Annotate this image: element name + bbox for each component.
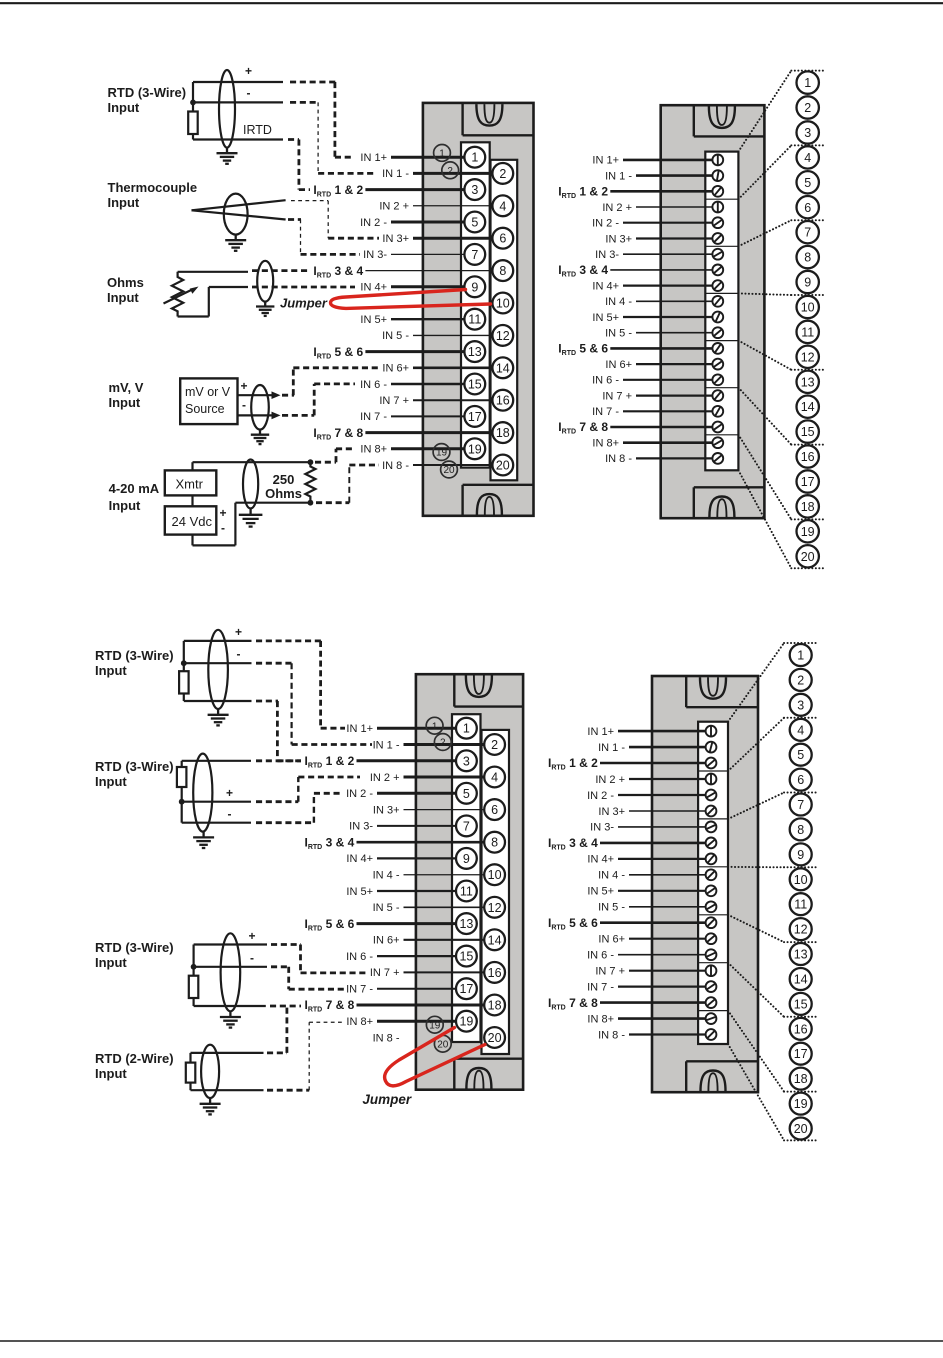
svg-text:IN 8 -: IN 8 - — [598, 1029, 625, 1041]
svg-text:Input: Input — [107, 290, 139, 305]
wire 24 Vdc - return (top diagram) — [193, 503, 311, 546]
wire TC - to IN 3- (dashed) — [288, 220, 360, 255]
dotted leader 4 (bottom diagram) — [728, 866, 784, 868]
pin number 20 (bottom diagram) — [790, 1118, 812, 1140]
cable clamp top (bottom diagram, terminal view) — [700, 677, 726, 699]
svg-text:9: 9 — [804, 276, 811, 290]
screw 9 (bottom diagram, terminal view) — [706, 854, 717, 865]
screw 15 (top diagram, terminal view) — [712, 374, 723, 385]
terminal 8 (top diagram) — [492, 260, 513, 281]
svg-text:-: - — [237, 647, 241, 661]
terminal block body (bottom diagram, wiring view) — [416, 674, 523, 1089]
dotted leader 7 (bottom diagram) — [728, 1011, 784, 1092]
svg-text:2: 2 — [440, 738, 446, 749]
svg-text:IN 3+: IN 3+ — [598, 806, 625, 818]
svg-text:16: 16 — [496, 394, 510, 408]
group separator dotted line 4 (top diagram) — [791, 294, 826, 296]
dotted leader 5 (top diagram) — [738, 341, 791, 370]
wire/label IN 5 - (bottom diagram mid block) — [373, 902, 485, 914]
screw 6 (top diagram, terminal view) — [712, 233, 723, 244]
svg-text:RTD (3-Wire): RTD (3-Wire) — [95, 648, 174, 663]
wire/label IN 8 - (bottom diagram screw block) — [598, 1029, 706, 1041]
pin number 6 (top diagram) — [797, 196, 819, 218]
svg-text:13: 13 — [794, 948, 808, 962]
screw 5 (bottom diagram, terminal view) — [706, 790, 717, 801]
terminal 7 (top diagram) — [464, 244, 485, 265]
junction node 250 Ohms bottom (top diagram) — [308, 500, 314, 506]
terminal 16 (bottom diagram) — [484, 962, 505, 983]
cable clamp bottom (bottom diagram, wiring view) — [466, 1068, 491, 1089]
svg-text:+: + — [220, 506, 227, 520]
callout circled 2 (top diagram) — [442, 162, 459, 179]
RTD element resistor #2 (bottom diagram) — [177, 767, 187, 787]
svg-text:5: 5 — [797, 748, 804, 762]
wire Xmtr to 24 Vdc (top diagram) — [191, 495, 193, 506]
svg-text:13: 13 — [801, 375, 815, 389]
wire RTD 2-wire bottom to IN 8+ (dashed) — [267, 1022, 345, 1090]
Xmtr box (top diagram) — [165, 470, 217, 495]
svg-text:Input: Input — [95, 663, 127, 678]
jumper wire terminals 19-20 (bottom diagram) — [385, 1028, 485, 1086]
svg-text:2: 2 — [499, 167, 506, 181]
svg-text:19: 19 — [801, 525, 815, 539]
svg-text:18: 18 — [801, 500, 815, 514]
label RTD (3-Wire) Input (top diagram) — [108, 85, 187, 115]
svg-text:IN 2 -: IN 2 - — [360, 217, 387, 229]
svg-text:13: 13 — [468, 345, 482, 359]
terminal 2 (top diagram) — [492, 163, 513, 184]
pin number 12 (top diagram) — [797, 346, 819, 368]
svg-text:IN 4 -: IN 4 - — [373, 870, 400, 882]
wire/label 1 &amp; 2 (bottom diagram screw block) — [548, 756, 706, 772]
svg-text:IN 5 -: IN 5 - — [605, 328, 632, 340]
svg-text:20: 20 — [488, 1031, 502, 1045]
pin number 18 (bottom diagram) — [790, 1068, 812, 1090]
callout circled 2 (bottom diagram) — [434, 734, 451, 751]
svg-text:Source: Source — [185, 402, 225, 416]
svg-text:IN 4+: IN 4+ — [360, 282, 387, 294]
svg-text:IN 1+: IN 1+ — [592, 155, 619, 167]
wire/label IN 5+ (bottom diagram screw block) — [587, 886, 705, 898]
wire/label 5 &amp; 6 (top diagram mid block) — [313, 345, 464, 361]
svg-text:IN 8+: IN 8+ — [587, 1013, 614, 1025]
wire 4-20 mA + to IN 8+ (dashed) — [315, 449, 354, 462]
wire/label IN 5+ (top diagram screw block) — [592, 312, 712, 324]
svg-text:Jumper: Jumper — [280, 296, 328, 311]
terminal 10 (bottom diagram) — [484, 864, 505, 885]
svg-text:IN 5 -: IN 5 - — [373, 902, 400, 914]
group separator dotted line 7 (top diagram) — [791, 518, 826, 520]
svg-text:17: 17 — [794, 1047, 808, 1061]
wire/label IN 4+ (bottom diagram mid block) — [346, 853, 456, 865]
group separator dotted line 2 (top diagram) — [791, 144, 826, 146]
svg-text:10: 10 — [801, 301, 815, 315]
svg-text:20: 20 — [496, 459, 510, 473]
label 4-20 mA Input (top diagram) — [109, 481, 160, 513]
svg-text:-: - — [221, 521, 225, 535]
pin number 18 (top diagram) — [797, 495, 819, 517]
wire/label IN 8 - (top diagram mid block) — [382, 460, 492, 472]
wire/label 3 &amp; 4 (bottom diagram mid block) — [305, 835, 485, 851]
svg-text:IN 3+: IN 3+ — [382, 233, 409, 245]
svg-text:15: 15 — [794, 997, 808, 1011]
group separator dotted line 4 (bottom diagram) — [784, 866, 819, 868]
wire/label IN 4+ (top diagram mid block) — [360, 282, 464, 294]
junction node 250 Ohms top (top diagram) — [308, 459, 314, 465]
svg-text:5: 5 — [463, 787, 470, 801]
svg-text:IN 2 +: IN 2 + — [379, 201, 409, 213]
svg-text:17: 17 — [801, 475, 815, 489]
svg-text:Input: Input — [95, 955, 127, 970]
callout circled 20 (top diagram) — [441, 461, 458, 478]
group separator dotted line 3 (top diagram) — [791, 219, 826, 221]
callout circled 19 (top diagram) — [433, 444, 450, 461]
polarity labels RTD#2 (bottom diagram) — [226, 786, 233, 821]
wire/label IN 6 - (top diagram screw block) — [592, 375, 712, 387]
svg-text:IN 2 +: IN 2 + — [602, 202, 632, 214]
svg-text:IN 8 -: IN 8 - — [373, 1032, 400, 1044]
svg-text:18: 18 — [794, 1072, 808, 1086]
pin number 16 (bottom diagram) — [790, 1018, 812, 1040]
terminal block body (top diagram, wiring view) — [423, 103, 534, 516]
wire mV - to IN 6 - (dashed) — [282, 384, 355, 416]
svg-text:6: 6 — [797, 773, 804, 787]
wire/label IN 5 - (bottom diagram screw block) — [598, 902, 706, 914]
svg-text:IN 7 +: IN 7 + — [602, 390, 632, 402]
svg-text:12: 12 — [794, 923, 808, 937]
wire Xmtr top loop (top diagram) — [193, 462, 311, 470]
callout circled 19 (bottom diagram) — [426, 1016, 443, 1033]
terminal 12 (bottom diagram) — [484, 897, 505, 918]
svg-text:IN 5+: IN 5+ — [346, 886, 373, 898]
svg-text:Xmtr: Xmtr — [176, 477, 204, 492]
screw 1 (bottom diagram, terminal view) — [706, 725, 717, 737]
svg-text:1: 1 — [463, 722, 470, 736]
polarity labels 24 Vdc (top diagram) — [220, 506, 227, 535]
terminal 12 (top diagram) — [492, 325, 513, 346]
svg-text:IN 6 -: IN 6 - — [587, 950, 614, 962]
pin number 3 (bottom diagram) — [790, 694, 812, 716]
wire/label 5 &amp; 6 (top diagram screw block) — [558, 342, 712, 358]
svg-text:Ohms: Ohms — [107, 275, 144, 290]
RTD element resistor (top diagram) — [188, 112, 198, 135]
pin number 17 (top diagram) — [797, 470, 819, 492]
terminal 5 (top diagram) — [464, 212, 485, 233]
terminal 15 (top diagram) — [464, 374, 485, 395]
wire RTD1 IRTD to IRTD 1 & 2 (dashed) — [288, 140, 310, 190]
cable shield mV (top diagram) — [251, 385, 269, 430]
wire RTD#2 current lead to IRTD 1 & 2 (dashed) — [256, 759, 301, 762]
svg-text:mV or V: mV or V — [185, 385, 231, 399]
screw 17 (top diagram, terminal view) — [712, 406, 723, 417]
screw 8 (bottom diagram, terminal view) — [706, 838, 717, 849]
pin number 16 (top diagram) — [797, 445, 819, 467]
svg-text:IN 4+: IN 4+ — [346, 853, 373, 865]
screw 5 (top diagram, terminal view) — [712, 217, 723, 228]
dotted leader 5 (bottom diagram) — [728, 915, 784, 942]
svg-text:IN 3-: IN 3- — [595, 249, 619, 261]
cable shield RTD#3 (bottom diagram) — [221, 933, 241, 1011]
ground mV shield (top diagram) — [251, 430, 269, 444]
wire/label IN 2 - (top diagram screw block) — [592, 218, 712, 230]
RTD element resistor 2-wire (bottom diagram) — [186, 1063, 196, 1083]
screw 3 (top diagram, terminal view) — [712, 186, 723, 197]
wire/label IN 1+ (bottom diagram screw block) — [587, 726, 705, 738]
pin number 4 (bottom diagram) — [790, 719, 812, 741]
svg-text:IN 7 +: IN 7 + — [595, 966, 625, 978]
label RTD (3-Wire) Input #3 (bottom diagram) — [95, 940, 174, 970]
svg-text:20: 20 — [443, 465, 455, 476]
screw 2 (top diagram, terminal view) — [712, 170, 723, 181]
svg-text:-: - — [250, 951, 254, 965]
label RTD (3-Wire) Input #1 (bottom diagram) — [95, 648, 174, 678]
screw terminal block body (top diagram, terminal view) — [661, 105, 765, 518]
RTD element resistor #1 (bottom diagram) — [179, 671, 189, 693]
svg-text:14: 14 — [801, 400, 815, 414]
callout circled 20 (bottom diagram) — [434, 1035, 451, 1052]
svg-text:mV, V: mV, V — [109, 380, 144, 395]
svg-text:12: 12 — [488, 901, 502, 915]
wire/label IN 8+ (bottom diagram mid block) — [346, 1016, 456, 1028]
terminal 6 (top diagram) — [492, 228, 513, 249]
screw 13 (top diagram, terminal view) — [712, 343, 723, 354]
svg-text:8: 8 — [797, 823, 804, 837]
wire/label IN 6+ (bottom diagram mid block) — [373, 935, 484, 947]
wire/label IN 4 - (bottom diagram screw block) — [598, 870, 706, 882]
pin number 3 (top diagram) — [797, 121, 819, 143]
wire RTD1 + to IN 1+ (dashed) — [290, 82, 353, 157]
dotted leader 1 (top diagram) — [738, 71, 791, 152]
terminal 4 (top diagram) — [492, 195, 513, 216]
label RTD (2-Wire) Input (bottom diagram) — [95, 1051, 174, 1081]
screw 3 (bottom diagram, terminal view) — [706, 758, 717, 769]
wire/label IN 7 + (top diagram screw block) — [602, 390, 712, 402]
screw 18 (top diagram, terminal view) — [712, 422, 723, 433]
svg-text:IN 6+: IN 6+ — [373, 935, 400, 947]
svg-text:IN 2 -: IN 2 - — [592, 218, 619, 230]
group separator dotted line 2 (bottom diagram) — [784, 717, 819, 719]
screw 13 (bottom diagram, terminal view) — [706, 917, 717, 928]
wire ohms bottom (top diagram) — [178, 287, 248, 317]
svg-text:IN 5 -: IN 5 - — [382, 330, 409, 342]
ground RTD1 shield (top diagram) — [217, 148, 238, 164]
pin number 1 (top diagram) — [797, 71, 819, 93]
wire/label 1 &amp; 2 (bottom diagram mid block) — [305, 754, 457, 770]
screw 11 (top diagram, terminal view) — [712, 312, 723, 323]
svg-text:4-20 mA: 4-20 mA — [109, 481, 160, 496]
terminal 20 (bottom diagram) — [484, 1027, 505, 1048]
wire/label IN 4 - (bottom diagram mid block) — [373, 870, 485, 882]
RTD 3-wire sensor circuit #1 (bottom diagram) — [184, 641, 252, 701]
callout circled 1 (bottom diagram) — [426, 717, 443, 734]
terminal 3 (top diagram) — [464, 179, 485, 200]
svg-text:1: 1 — [439, 149, 445, 160]
svg-text:7: 7 — [797, 798, 804, 812]
svg-text:1: 1 — [471, 151, 478, 165]
ground RTD 2-wire shield (bottom diagram) — [200, 1098, 221, 1114]
group separator dotted line 6 (bottom diagram) — [784, 1016, 819, 1018]
ground RTD#2 shield (bottom diagram) — [193, 832, 214, 848]
wire/label IN 6+ (top diagram screw block) — [605, 359, 712, 371]
screw 12 (top diagram, terminal view) — [712, 327, 723, 338]
ground RTD#3 shield (bottom diagram) — [220, 1011, 241, 1027]
dotted leader 6 (top diagram) — [738, 388, 791, 445]
terminal 17 (bottom diagram) — [456, 978, 477, 999]
svg-text:2: 2 — [491, 738, 498, 752]
svg-text:20: 20 — [794, 1122, 808, 1136]
svg-text:IN 1+: IN 1+ — [360, 152, 387, 164]
terminal 1 (top diagram) — [464, 147, 485, 168]
svg-text:9: 9 — [471, 280, 478, 294]
svg-text:12: 12 — [801, 350, 815, 364]
group separator dotted line 5 (top diagram) — [791, 369, 826, 371]
screw 16 (bottom diagram, terminal view) — [706, 965, 717, 977]
dotted leader 8 (bottom diagram) — [728, 1044, 784, 1140]
wire/label IN 7 - (top diagram screw block) — [592, 406, 712, 418]
label Ohms Input (top diagram) — [107, 275, 144, 305]
svg-text:1: 1 — [797, 649, 804, 663]
cable clamp bottom (top diagram, terminal view) — [709, 497, 734, 518]
wire/label IN 4+ (top diagram screw block) — [592, 280, 712, 292]
terminal 19 (top diagram) — [464, 438, 485, 459]
pin number 15 (bottom diagram) — [790, 993, 812, 1015]
wire/label IN 7 - (bottom diagram screw block) — [587, 981, 706, 993]
wire/label IN 1 - (top diagram mid block) — [382, 168, 492, 180]
svg-text:18: 18 — [496, 426, 510, 440]
svg-text:IN 6 -: IN 6 - — [592, 375, 619, 387]
svg-text:-: - — [242, 398, 246, 412]
screw 7 (bottom diagram, terminal view) — [706, 822, 717, 833]
wire/label IN 3+ (top diagram screw block) — [605, 233, 712, 245]
svg-text:8: 8 — [804, 251, 811, 265]
polarity labels RTD#1 (bottom diagram) — [235, 625, 242, 661]
screw 2 (bottom diagram, terminal view) — [706, 742, 717, 753]
wire ohms to IN 4+ (dashed) — [252, 286, 355, 289]
pin number 5 (top diagram) — [797, 171, 819, 193]
svg-text:IN 2 -: IN 2 - — [587, 790, 614, 802]
wire/label IN 5+ (top diagram mid block) — [360, 314, 464, 326]
wire/label 7 &amp; 8 (top diagram screw block) — [558, 420, 712, 436]
svg-text:13: 13 — [459, 917, 473, 931]
svg-text:IN 2 +: IN 2 + — [595, 774, 625, 786]
terminal 18 (bottom diagram) — [484, 995, 505, 1016]
cable clamp top (top diagram, wiring view) — [476, 104, 502, 126]
terminal 10 (top diagram) — [492, 293, 513, 314]
wire ohms to IRTD 3 & 4 (dashed) — [252, 269, 310, 272]
wire/label IN 8+ (bottom diagram screw block) — [587, 1013, 705, 1025]
group separator dotted line 1 (bottom diagram) — [784, 642, 819, 644]
pin number 20 (top diagram) — [797, 545, 819, 567]
wire/label IN 1 - (bottom diagram mid block) — [373, 739, 485, 751]
pin number 14 (bottom diagram) — [790, 968, 812, 990]
terminal 18 (top diagram) — [492, 422, 513, 443]
svg-text:+: + — [235, 625, 242, 639]
cable shield RTD1 (top diagram) — [219, 70, 235, 148]
terminal 11 (top diagram) — [464, 309, 485, 330]
svg-text:4: 4 — [804, 151, 811, 165]
svg-text:IN 6+: IN 6+ — [382, 363, 409, 375]
svg-text:20: 20 — [801, 550, 815, 564]
svg-text:1: 1 — [432, 721, 438, 732]
svg-text:19: 19 — [436, 448, 448, 459]
junction node RTD#3 (bottom diagram) — [191, 964, 197, 970]
dotted leader 8 (top diagram) — [738, 470, 791, 568]
wire/label IN 5+ (bottom diagram mid block) — [346, 886, 456, 898]
screw strip housing (top diagram, terminal view) — [705, 152, 738, 471]
wire ohms top (top diagram) — [178, 271, 248, 273]
svg-text:Ohms: Ohms — [265, 486, 302, 501]
svg-text:Jumper: Jumper — [362, 1092, 412, 1107]
wire RTD 2-wire top to IRTD 7 & 8 (dashed) — [267, 1006, 287, 1053]
ground 4-20 mA shield (top diagram) — [239, 509, 263, 527]
terminal 5 (bottom diagram) — [456, 783, 477, 804]
wire/label IN 3+ (bottom diagram mid block) — [373, 804, 484, 816]
svg-text:20: 20 — [437, 1039, 449, 1050]
svg-text:IN 6+: IN 6+ — [598, 934, 625, 946]
wire/label IN 3- (top diagram screw block) — [595, 249, 712, 261]
group separator dotted line 6 (top diagram) — [791, 444, 826, 446]
svg-text:Input: Input — [95, 1066, 127, 1081]
pin number 4 (top diagram) — [797, 146, 819, 168]
dotted leader 3 (top diagram) — [738, 220, 791, 246]
svg-text:1: 1 — [804, 76, 811, 90]
svg-text:IN 3-: IN 3- — [349, 821, 373, 833]
svg-text:14: 14 — [496, 361, 510, 375]
wire/label IN 2 + (top diagram screw block) — [602, 202, 712, 214]
variable resistor ohms source (top diagram) — [164, 272, 199, 317]
screw 12 (bottom diagram, terminal view) — [706, 901, 717, 912]
wire/label IN 8 - (bottom diagram mid block) — [373, 1032, 400, 1044]
wire RTD#1 + to IN 1+ (dashed) — [256, 641, 345, 728]
ground RTD#1 shield (bottom diagram) — [208, 709, 229, 725]
wire mV - output with arrow (top diagram) — [238, 412, 281, 420]
pin number 6 (bottom diagram) — [790, 769, 812, 791]
wire/label IN 8+ (top diagram screw block) — [592, 438, 712, 450]
svg-text:IN 4+: IN 4+ — [592, 280, 619, 292]
dotted leader 1 (bottom diagram) — [728, 643, 784, 722]
svg-text:16: 16 — [801, 450, 815, 464]
group separator dotted line 3 (bottom diagram) — [784, 792, 819, 794]
terminal 17 (top diagram) — [464, 406, 485, 427]
svg-text:+: + — [245, 64, 252, 78]
pin number 8 (top diagram) — [797, 246, 819, 268]
svg-text:IN 4 -: IN 4 - — [598, 870, 625, 882]
svg-text:11: 11 — [801, 325, 814, 339]
jumper wire terminals 9-10 (top diagram) — [331, 290, 491, 309]
screw 9 (top diagram, terminal view) — [712, 280, 723, 291]
svg-text:RTD (2-Wire): RTD (2-Wire) — [95, 1051, 174, 1066]
svg-text:IN 8 -: IN 8 - — [382, 460, 409, 472]
svg-text:16: 16 — [488, 966, 502, 980]
svg-text:10: 10 — [794, 873, 808, 887]
svg-text:-: - — [247, 86, 251, 100]
cable shield RTD#2 (bottom diagram) — [193, 754, 212, 832]
svg-text:3: 3 — [471, 183, 478, 197]
svg-text:10: 10 — [488, 868, 502, 882]
svg-text:IN 1 -: IN 1 - — [373, 739, 400, 751]
polarity labels RTD1 (top diagram) — [243, 64, 272, 137]
wire RTD1 - to IN 1 - (dashed) — [290, 102, 376, 173]
terminal column left (odd) (top diagram, wiring view) — [461, 142, 490, 467]
svg-text:IN 7 +: IN 7 + — [379, 395, 409, 407]
svg-text:2: 2 — [447, 166, 453, 177]
label mV, V Input (top diagram) — [109, 380, 144, 410]
screw 15 (bottom diagram, terminal view) — [706, 949, 717, 960]
group separator dotted line 7 (bottom diagram) — [784, 1091, 819, 1093]
svg-text:Input: Input — [109, 498, 141, 513]
pin number 8 (bottom diagram) — [790, 818, 812, 840]
terminal 7 (bottom diagram) — [456, 816, 477, 837]
